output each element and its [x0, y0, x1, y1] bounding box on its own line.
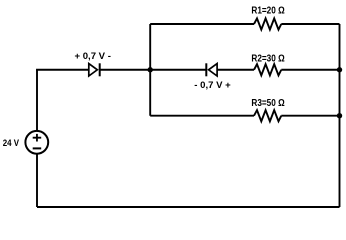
svg-text:R3=50 Ω: R3=50 Ω [251, 98, 284, 109]
wire: right vertical bus [339, 24, 341, 207]
resistor R3 zigzag [254, 110, 281, 121]
wire: middle wire from D1 to diode D2 [100, 69, 207, 71]
svg-text:+ 0,7 V -: + 0,7 V - [75, 51, 111, 61]
resistor R1 zigzag [254, 18, 281, 29]
voltage source V1 24V [25, 131, 48, 154]
diode D1 (series, anode left) [89, 63, 100, 76]
wire: middle wire from R2 to right bus [281, 69, 339, 71]
svg-text:24 V: 24 V [3, 138, 20, 148]
wire: left vertical from source top up to middle net [36, 70, 38, 131]
wire: top branch right segment [281, 23, 339, 25]
resistor R2 zigzag [254, 64, 281, 75]
wire: bottom return wire [37, 206, 340, 208]
wire: middle wire from source corner to diode D1 [36, 69, 89, 71]
wire: top branch left segment [150, 23, 254, 25]
diode D2 (middle branch, cathode left) [206, 63, 217, 76]
wire: middle wire from D2 to resistor R2 [217, 69, 254, 71]
svg-text:R2=30 Ω: R2=30 Ω [251, 54, 284, 65]
wire: left vertical of parallel block [149, 24, 151, 116]
wire: left vertical from source bottom down to bottom net [36, 154, 38, 207]
svg-text:R1=20 Ω: R1=20 Ω [251, 5, 284, 16]
node: junction middle net / parallel block left [148, 67, 153, 72]
svg-text:- 0,7 V +: - 0,7 V + [194, 80, 230, 90]
wire: bottom branch right segment [281, 115, 339, 117]
wire: bottom branch left segment [150, 115, 254, 117]
node: junction right bus / bottom branch [337, 113, 342, 118]
node: junction right bus / middle branch [337, 67, 342, 72]
